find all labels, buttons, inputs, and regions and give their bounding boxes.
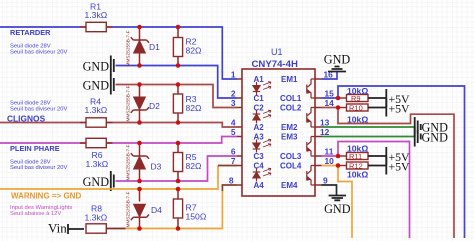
svg-text:A4: A4 — [254, 181, 265, 190]
wire pin9 to GND — [322, 185, 337, 195]
ground GND ch3 — [83, 171, 114, 191]
svg-text:10: 10 — [325, 156, 335, 166]
resistor R2 — [173, 27, 202, 66]
svg-text:C3: C3 — [254, 152, 265, 161]
junction R2 top / node RETARDER — [176, 25, 181, 30]
svg-text:11: 11 — [325, 147, 334, 157]
ground GND right 2 — [415, 127, 448, 147]
wire pin10 net (orange loop) — [322, 166, 353, 239]
power +5V (pin11) — [368, 147, 410, 165]
junction D4 top / net WARNING — [137, 187, 142, 192]
svg-text:14: 14 — [325, 98, 335, 108]
pin stubs right — [315, 79, 322, 185]
svg-text:D4: D4 — [151, 205, 162, 215]
power +5V (pin14) — [368, 99, 410, 117]
svg-text:10kΩ: 10kΩ — [347, 115, 368, 125]
wire ch2 GND line — [116, 85, 238, 108]
wire pin11 net (magenta loop) — [322, 142, 410, 239]
phototransistor Q1 — [307, 79, 315, 98]
junction dot pin14 — [336, 105, 341, 110]
phototransistor Q3 — [307, 137, 315, 157]
pin names right column — [280, 75, 302, 190]
svg-text:2: 2 — [231, 89, 236, 99]
phototransistor Q4 — [307, 166, 315, 186]
zener diode D3 — [126, 143, 162, 181]
junction R7 top / net WARNING — [176, 187, 181, 192]
svg-text:COL3: COL3 — [280, 152, 302, 161]
opto LED 1 — [253, 82, 271, 95]
wire pin13 to GND (green) — [322, 126, 415, 128]
resistor R5 — [173, 143, 202, 181]
phototransistor Q2 — [307, 108, 315, 128]
svg-text:A1: A1 — [254, 75, 265, 84]
resistor R12 — [338, 162, 368, 180]
wire ch3 GND line — [116, 156, 238, 181]
resistor R7 — [173, 189, 206, 229]
junction R3 bottom / node CLIGNOS — [176, 120, 181, 125]
resistor R6 — [80, 138, 113, 169]
wire ch1 GND line — [116, 66, 238, 99]
zener diode D2 — [126, 85, 161, 123]
svg-text:GND: GND — [83, 175, 110, 189]
svg-text:WARNING => GND: WARNING => GND — [11, 191, 81, 200]
svg-text:3: 3 — [231, 98, 236, 108]
ground GND bottom — [324, 196, 351, 217]
pin stubs left — [237, 79, 242, 185]
svg-text:MMSZ5255B-7-F: MMSZ5255B-7-F — [126, 85, 131, 121]
svg-text:10kΩ: 10kΩ — [347, 86, 368, 96]
wire pin8 stub brown — [222, 185, 237, 191]
svg-text:GND: GND — [83, 78, 110, 92]
svg-text:D2: D2 — [149, 101, 160, 111]
svg-text:GND: GND — [83, 59, 110, 73]
junction R3 top / GND ch2 — [176, 82, 181, 87]
svg-text:12: 12 — [320, 127, 330, 137]
svg-text:6: 6 — [231, 147, 236, 157]
svg-text:82Ω: 82Ω — [186, 103, 203, 113]
svg-text:A2: A2 — [254, 123, 265, 132]
pin names left column — [254, 75, 265, 190]
svg-text:EM4: EM4 — [281, 181, 298, 190]
svg-text:GND: GND — [324, 202, 351, 216]
svg-text:EM3: EM3 — [281, 133, 298, 142]
junction D2 cathode / node CLIGNOS — [137, 120, 142, 125]
svg-text:150Ω: 150Ω — [186, 212, 207, 222]
junction D3 anode / GND ch3 — [137, 179, 142, 184]
svg-text:1.3kΩ: 1.3kΩ — [85, 105, 108, 115]
svg-text:EM2: EM2 — [281, 123, 298, 132]
power +5V (pin15) — [368, 89, 410, 107]
svg-text:7: 7 — [231, 156, 236, 166]
opto LED 4 — [253, 168, 271, 181]
wire pin14 net (red loop) — [322, 108, 455, 239]
opto LED 2 — [253, 110, 271, 123]
svg-text:4: 4 — [231, 118, 236, 128]
svg-text:D3: D3 — [151, 162, 162, 172]
junction R5 bottom / GND ch3 — [176, 179, 181, 184]
svg-text:10kΩ: 10kΩ — [347, 170, 368, 180]
svg-text:Seuil abaisse à 12V: Seuil abaisse à 12V — [10, 211, 61, 217]
resistor R4 — [80, 97, 113, 128]
svg-text:CNY74-4H: CNY74-4H — [252, 59, 298, 70]
svg-text:13: 13 — [320, 118, 330, 128]
ground GND top — [324, 53, 351, 72]
svg-text:A3: A3 — [254, 133, 265, 142]
svg-text:COL1: COL1 — [280, 94, 302, 103]
resistor R8 — [85, 204, 108, 234]
svg-text:MMSZ5255B-7-F: MMSZ5255B-7-F — [126, 144, 131, 180]
svg-text:GND: GND — [324, 53, 351, 67]
svg-text:MMSZ5255B-7-F: MMSZ5255B-7-F — [126, 30, 131, 66]
svg-text:D1: D1 — [149, 42, 160, 52]
svg-text:C4: C4 — [254, 162, 265, 171]
junction D3 cathode / node PLEIN PHARE — [137, 141, 142, 146]
svg-text:R11: R11 — [349, 152, 362, 161]
opto LED 3 — [253, 139, 271, 152]
wire pin15 net (blue loop) — [322, 86, 465, 238]
op-amp U1 body — [242, 47, 315, 196]
svg-text:+5V: +5V — [389, 160, 411, 174]
svg-text:1.3kΩ: 1.3kΩ — [85, 213, 108, 223]
wire PLEIN PHARE net (node line ch3) — [0, 137, 237, 144]
junction dot pin15 — [336, 96, 341, 101]
wire pin12 to GND (green) — [322, 136, 415, 138]
svg-text:10kΩ: 10kΩ — [347, 144, 368, 154]
zener diode D1 — [126, 27, 161, 67]
svg-text:GND: GND — [422, 131, 449, 145]
svg-text:1: 1 — [231, 70, 236, 80]
svg-text:COL4: COL4 — [280, 162, 302, 171]
junction D1 cathode / node RETARDER — [137, 25, 142, 30]
svg-text:U1: U1 — [271, 47, 283, 57]
svg-text:PLEIN PHARE: PLEIN PHARE — [10, 144, 60, 153]
junction D2 top / GND ch2 — [137, 82, 142, 87]
svg-text:82Ω: 82Ω — [186, 46, 203, 56]
ground GND right 1 — [415, 117, 448, 137]
resistor R11 — [338, 144, 368, 162]
svg-text:RETARDER: RETARDER — [10, 28, 51, 37]
junction R7 bottom / net Vin — [176, 226, 181, 231]
junction D4 cathode / net Vin — [137, 226, 142, 231]
wire CLIGNOS net (node line ch2) — [0, 123, 237, 128]
junction D1 anode / GND ch1 — [137, 63, 142, 68]
svg-text:COL2: COL2 — [280, 104, 302, 113]
pin numbers right — [320, 70, 334, 186]
svg-text:MMSZ5255B-7-F: MMSZ5255B-7-F — [126, 191, 131, 227]
wire pin16 to GND — [322, 72, 338, 79]
ground GND ch1 — [83, 56, 114, 76]
svg-text:15: 15 — [325, 89, 335, 99]
svg-text:9: 9 — [323, 176, 328, 186]
port Vin — [48, 221, 84, 236]
svg-text:1.3kΩ: 1.3kΩ — [85, 10, 108, 20]
resistor R9 — [338, 86, 368, 103]
resistor R3 — [173, 85, 202, 123]
pin numbers left — [229, 70, 236, 186]
wire RETARDER net (node line ch1) — [0, 27, 237, 79]
svg-text:1.3kΩ: 1.3kΩ — [86, 159, 109, 169]
svg-text:C2: C2 — [254, 104, 265, 113]
svg-text:Seuil bas diviseur 20V: Seuil bas diviseur 20V — [10, 165, 67, 171]
wire pin7 stub brown — [218, 165, 237, 167]
svg-text:Seuil bas diviseur 20V: Seuil bas diviseur 20V — [10, 106, 67, 112]
resistor R10 — [338, 104, 368, 125]
junction dot pin10 — [336, 163, 341, 168]
power +5V (pin10) — [368, 157, 410, 175]
junction R5 top / node PLEIN PHARE — [176, 141, 181, 146]
wire WARNING net — [0, 166, 218, 190]
svg-text:82Ω: 82Ω — [186, 161, 203, 171]
svg-text:EM1: EM1 — [281, 75, 298, 84]
junction dot pin11 — [336, 154, 341, 159]
svg-text:C1: C1 — [254, 94, 265, 103]
svg-text:Vin: Vin — [48, 221, 67, 236]
svg-text:5: 5 — [231, 127, 236, 137]
svg-text:Seuil bas diviseur 20V: Seuil bas diviseur 20V — [10, 49, 67, 55]
junction R2 bottom / GND ch1 — [176, 63, 181, 68]
svg-text:8: 8 — [229, 176, 234, 186]
svg-text:R10: R10 — [349, 104, 363, 113]
wire Vin net (node line ch4) — [106, 228, 125, 230]
zener diode D4 — [126, 189, 163, 229]
svg-text:+5V: +5V — [389, 102, 411, 116]
resistor R1 — [80, 2, 113, 32]
ground GND ch2 — [83, 75, 114, 95]
